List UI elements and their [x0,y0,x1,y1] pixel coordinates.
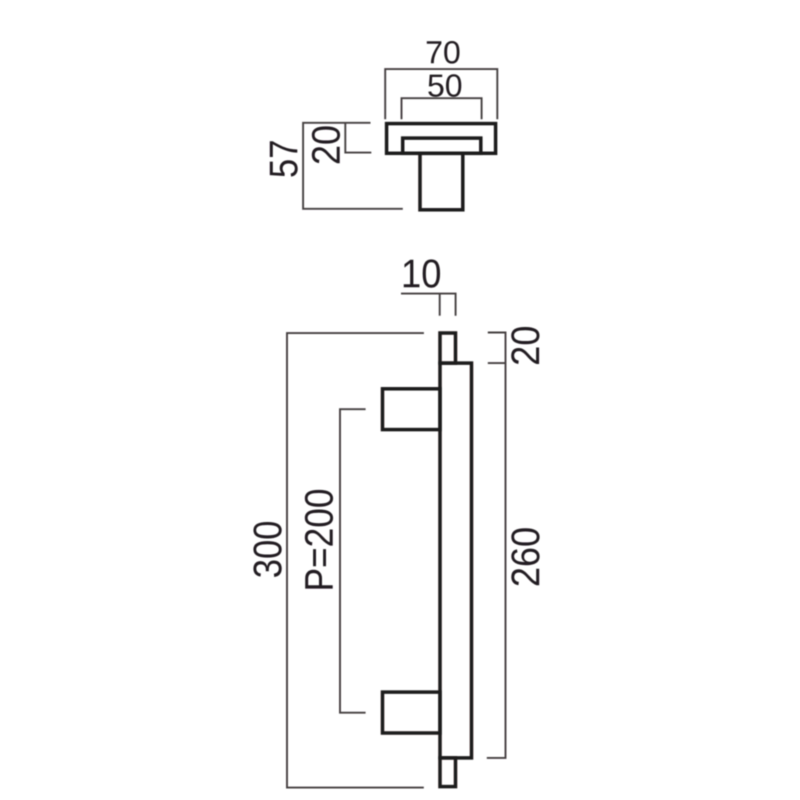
dimension 50 line [402,98,482,119]
dimension 20 tick (side view) [488,362,506,364]
dimension 10 line [401,294,456,316]
dimension P=200 line [340,409,366,713]
top view: square stem post [420,153,463,210]
dimension 300 label [253,522,281,577]
side view: top mounting post [383,389,441,430]
side view: top fixing stud [440,333,456,363]
side view: bottom mounting post [383,692,441,733]
dimension 57 label [270,141,298,176]
side view: bottom fixing stud [440,758,456,787]
dimension 50 label [428,74,461,97]
dimension 20 line (top view) [345,123,371,153]
dimension 70 line [385,69,497,119]
dimension 260 and 20 shared line [487,333,506,758]
dimension 70 label [427,41,460,64]
dimension 10 extension line [439,294,441,316]
dimension 20 label (side view) [511,327,539,364]
side view: handle bar [440,363,472,758]
dimension 57 line [303,123,403,209]
dimension 260 label [511,528,539,585]
top view: inner recess profile [403,138,481,153]
top view: escutcheon outer profile [387,124,496,154]
dimension 10 label [404,259,440,287]
dimension 20 label (top view) [312,126,340,163]
dimension P=200 label [305,490,333,589]
dimension 300 line [287,333,424,787]
